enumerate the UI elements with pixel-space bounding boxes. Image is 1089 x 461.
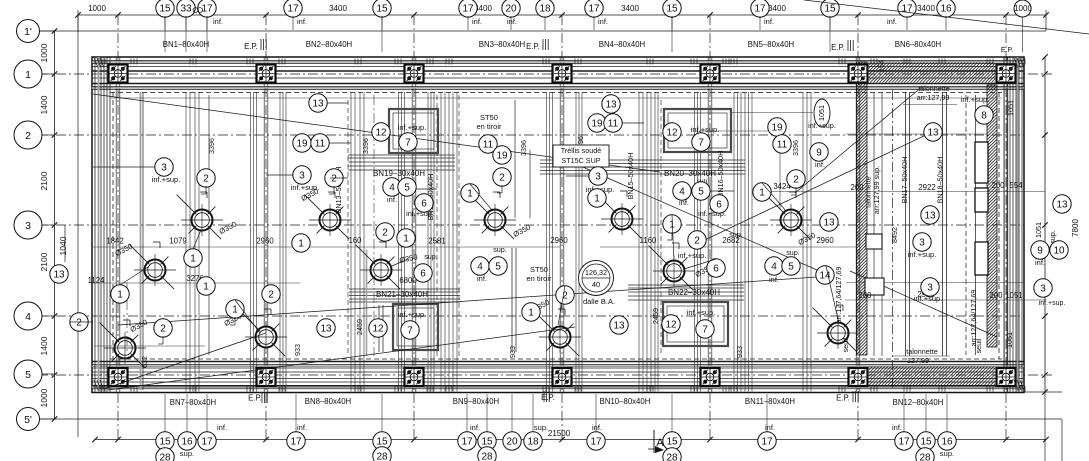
bar mark circle 17 top [459,0,477,17]
top dimension line [78,14,1046,16]
row centerline 2 [38,134,1024,136]
svg-text:2: 2 [793,175,799,186]
svg-text:1051: 1051 [817,105,826,121]
pile P11 diam 350 [781,210,802,231]
left wall dashed inner [112,92,114,359]
bottom right ext lines [1044,392,1046,461]
column block top C4 [553,65,572,83]
bar mark circle 15 top [373,0,391,17]
column block top C2 [257,65,276,83]
callout circle 19 at 777,127 [768,118,786,136]
svg-text:inf.: inf. [507,17,517,26]
bar mark circle 15 top [821,0,839,17]
svg-text:9: 9 [1037,246,1043,257]
svg-text:talonnette: talonnette [918,84,950,93]
callout circle 2 at 697,240 [688,231,706,249]
callout circle 1 at 470,193 [461,184,479,202]
callout leader line [416,188,437,190]
left wall lines [94,57,96,392]
svg-text:20: 20 [506,437,518,448]
callout circle 2 at 796,179 [787,170,805,188]
E.P. tick marks [852,391,854,402]
row centerline 1 [38,73,1052,75]
bar mark circle 16 top [937,0,955,17]
svg-text:154: 154 [877,60,886,72]
trellis soude label box [553,145,609,167]
hatched wall strip right of bay6 [987,85,997,347]
bar mark circle right [1014,0,1031,17]
right wall dashed inner [998,92,1000,359]
svg-text:3: 3 [25,220,31,232]
svg-text:1: 1 [759,188,765,199]
svg-text:18: 18 [539,4,551,15]
svg-text:3: 3 [1040,284,1046,295]
bay6 dim line y300 [845,299,1045,301]
svg-text:BN18–50x40H: BN18–50x40H [936,157,945,204]
callout circle 6 at 424,203 [415,194,433,212]
callout circle 1 at 193,258 [184,249,202,267]
callout circle 13 at 930,215 [921,206,939,224]
svg-text:E.P.: E.P. [244,42,258,51]
long diagonal D2 to circle 14 [560,157,817,270]
svg-text:ST50: ST50 [480,113,498,122]
svg-text:17: 17 [462,4,474,15]
window rect on hatched strip 2 [975,188,988,212]
dash-dot vline bay2 x374 [373,95,375,356]
svg-text:arr:127,99: arr:127,99 [917,93,950,102]
callout circle 13 at 318,103 [309,94,327,112]
callout circle 4 at 774,266 [765,257,783,275]
double vline bay3 x513 [511,248,513,352]
band tick marks [98,59,100,65]
callout circle 3 at 1043,288 [1034,279,1052,297]
beam BN18-50x40H vertical strip [942,92,944,356]
svg-text:4: 4 [477,262,483,273]
svg-text:15: 15 [159,4,171,15]
svg-text:7: 7 [407,326,413,337]
svg-text:1051: 1051 [1005,291,1022,300]
pile P7 diam 350 [485,210,506,231]
callout circle 2 at 271,294 [262,285,280,303]
svg-text:17: 17 [201,4,213,15]
pile P2 diam 350 [145,260,166,281]
bar mark circle 17 bottom [758,432,776,450]
load circle 126,32 / 40 [579,261,614,296]
callout circle 19 at 597,123 [588,114,606,132]
bar mark circle 20 bottom [503,432,521,450]
bay6 dim line y282 [846,282,1024,284]
svg-text:2960: 2960 [256,237,274,246]
top band beam lines thick [92,70,1024,72]
svg-text:5: 5 [788,262,794,273]
svg-text:15: 15 [920,437,932,448]
callout circle 4 at 392,187 [383,178,401,196]
bar mark circle 28 bottom [156,448,174,461]
svg-text:11: 11 [608,119,619,130]
bay6 leader y134 [846,133,987,135]
svg-text:17: 17 [201,437,213,448]
svg-text:4: 4 [389,183,395,194]
callout circle 12 at 378,328 [369,319,387,337]
svg-text:inf.+sup.: inf.+sup. [291,183,320,192]
dash-dot centerline bay6 x892 [892,90,894,390]
grid bubble 2 [14,121,42,149]
svg-text:13: 13 [823,218,835,229]
svg-text:2: 2 [331,174,337,185]
callout circle 3 at 922,242 [913,233,931,251]
bar mark circle 16 bottom [938,432,956,450]
svg-text:19: 19 [771,123,783,134]
svg-text:200: 200 [991,181,1005,190]
svg-text:en tiroir: en tiroir [476,122,502,131]
svg-text:E.P.: E.P. [541,393,555,402]
svg-text:13: 13 [613,321,625,332]
callout circle 11 at 782,144 [773,135,791,153]
svg-text:inf.+sup.: inf.+sup. [398,310,427,319]
svg-text:3396: 3396 [361,138,370,154]
svg-text:2: 2 [382,228,388,239]
callout circle 12 at 672,132 [663,123,681,141]
svg-text:ST50: ST50 [530,265,548,274]
grid bubble 3 [14,211,42,239]
steep diagonal bay1 bottom [104,333,266,389]
left extension vline [77,15,79,437]
grid bubble 5 [14,360,42,388]
svg-text:1051: 1051 [1034,222,1043,238]
left dim line [54,31,56,419]
callout leader [558,286,565,325]
svg-text:15: 15 [376,437,388,448]
svg-text:28: 28 [376,452,388,461]
E.P. tick marks [543,391,545,402]
svg-text:BN3–80x40H: BN3–80x40H [479,40,525,49]
svg-text:inf.: inf. [592,423,602,432]
top band dashed slab edge [110,92,1002,94]
grey vertical pair bay1 [140,92,142,390]
bar mark circle 28 bottom [373,447,391,461]
svg-text:19: 19 [591,119,603,130]
column double lines 4 [559,57,561,392]
bar mark circle 17 top [284,0,302,17]
hatched band segment top bay6 [869,63,995,83]
svg-text:21500: 21500 [548,429,571,438]
svg-text:13: 13 [927,128,939,139]
svg-text:BN6–80x40H: BN6–80x40H [895,40,941,49]
svg-text:13: 13 [1056,200,1068,211]
dashed vline bay2 right x437 [436,95,438,356]
svg-text:28: 28 [159,453,171,461]
svg-text:sup.: sup. [534,423,548,432]
svg-text:15: 15 [824,4,836,15]
svg-text:BN1–80x40H: BN1–80x40H [163,40,209,49]
column block bottom C5 [701,368,720,386]
svg-text:3: 3 [299,171,305,182]
svg-text:sup.: sup. [493,245,507,254]
bar mark circle 17 bottom [587,432,605,450]
column centerline 4 [561,15,563,439]
dim tick bottom [263,437,268,442]
svg-text:4: 4 [679,187,685,198]
svg-text:10: 10 [1053,246,1065,257]
callout circle 10 at 1059,250 [1050,241,1068,259]
grey line right of BN13 [366,250,368,356]
svg-text:13: 13 [312,99,324,110]
svg-text:1: 1 [203,282,209,293]
talonnette bottom underline [893,355,950,357]
column block top C7 [997,65,1016,83]
svg-text:28: 28 [666,453,678,461]
svg-text:2459: 2459 [651,308,660,324]
column 4 flank strips [546,92,548,392]
wall strip bay1 x193 [185,92,187,392]
beam BN19-30x40H horizontal [348,154,455,156]
left wall grey line [98,57,100,392]
pile P5 diam 350 [320,210,341,231]
svg-text:inf.: inf. [470,423,480,432]
svg-text:E.P.: E.P. [526,42,540,51]
callout leader line [329,142,351,144]
bar mark circle 15 bottom [917,432,935,450]
callout leader [193,230,201,249]
beam BN22-30x40H horizontal [628,284,744,286]
dim line y247 right [600,246,858,248]
svg-text:BN5–80x40H: BN5–80x40H [748,40,794,49]
svg-text:2: 2 [160,324,166,335]
callout circle 5 at 407,187 [398,178,416,196]
svg-text:1000: 1000 [1014,4,1032,13]
svg-text:talonnette: talonnette [906,347,938,356]
callout circle 7 at 705,329 [696,320,714,338]
callout circle 13 at 933,132 [924,123,942,141]
svg-text:inf.+sup.: inf.+sup. [398,123,427,132]
svg-text:inf.: inf. [297,423,307,432]
dim tick [115,12,120,17]
left hatch window rect 2 [865,278,884,295]
thin vline bay1 x209 [208,95,210,355]
svg-text:12: 12 [372,324,384,335]
leader y112 bay5 [731,112,813,114]
dim line y283 [93,282,300,284]
callout circle 7 at 701,142 [692,133,710,151]
svg-text:1: 1 [117,290,123,301]
top right diagonal D5 [804,0,1089,34]
svg-text:sup.: sup. [786,248,800,257]
dim tick bottom [1043,437,1048,442]
bar mark circle 16 bottom [178,432,196,450]
svg-text:1: 1 [594,194,600,205]
svg-text:6: 6 [421,199,427,210]
callout leader line [622,122,644,124]
column block top C3 [405,65,424,83]
svg-text:2100: 2100 [39,171,49,190]
svg-text:BN11–80x40H: BN11–80x40H [745,397,795,406]
svg-text:12: 12 [666,128,678,139]
line bay6 x975 [975,95,977,355]
bar mark circle 15 bottom [663,432,681,450]
callout circle 11 at 320,143 [311,134,329,152]
pile P6 diam 350 [371,260,392,281]
svg-text:BN17–50x40H: BN17–50x40H [900,157,909,204]
column centerline 3 [413,15,415,439]
dim line y247 left [93,246,560,248]
steep diagonal bay6 [795,86,923,193]
callout circle 5 at 791,266 [782,257,800,275]
svg-text:inf.: inf. [213,17,223,26]
E.P. tick marks [542,39,544,50]
callout leader [235,300,260,333]
column block bottom C4 [553,368,572,386]
callout circle 13 at 829,222 [820,213,838,231]
callout circle 2 at 502,177 [493,168,511,186]
callout circle 3 at 164,167 [155,158,173,176]
callout circle 7 at 408,142 [399,133,417,151]
svg-text:933: 933 [508,346,517,358]
callout leader [392,259,408,266]
bar mark circle 33 top [177,0,195,17]
pile P8 diam 350 [550,327,571,348]
dim tick [559,12,564,17]
beam BN15-50x40H vertical strip [638,92,640,392]
svg-text:5': 5' [24,414,32,426]
svg-text:15: 15 [376,4,388,15]
callout circle 1 at 206,286 [197,277,215,295]
callout circle 2 at 206,178 [197,169,215,187]
callout leader [470,184,492,210]
svg-text:seuil: seuil [841,337,850,352]
pit box bay2 bottom [393,304,438,350]
callout leader line [330,177,348,179]
thin vline bay3 x515 [514,100,516,218]
dim tick bottom [115,437,120,442]
grid bubble 5' [17,408,40,431]
pile P3 centerline [126,282,128,351]
svg-text:12: 12 [375,128,387,139]
beam BN13-50x40H vertical strip [350,92,352,392]
window rect on hatched strip 1 [975,142,988,183]
dashed vline bay2 x348 [347,100,349,356]
svg-text:13: 13 [320,324,332,335]
column double lines 3 [411,57,413,392]
bar mark circle 18 bottom [524,432,542,450]
svg-text:sup.: sup. [940,449,954,458]
svg-text:6: 6 [420,269,426,280]
dim tick [411,12,416,17]
bar mark circle 15 bottom [156,432,174,450]
svg-text:9: 9 [816,148,822,159]
svg-text:5: 5 [25,369,31,381]
bottom band grey lines [92,365,1024,367]
svg-text:200: 200 [989,291,1003,300]
svg-text:1124: 1124 [88,276,105,285]
svg-text:19: 19 [296,139,308,150]
svg-text:2960: 2960 [550,236,568,245]
callout circle 4 at 682,191 [673,182,691,200]
callout leader line [70,321,93,323]
column block bottom C1 [109,368,128,386]
interior line y98 [110,97,1002,99]
svg-text:3396: 3396 [519,140,528,156]
svg-text:18: 18 [527,437,539,448]
svg-text:inf.+sup.: inf.+sup. [678,251,707,260]
pile P4 diam 350 [256,327,277,348]
callout circle 1 at 301,243 [292,234,310,252]
svg-text:inf.: inf. [598,17,608,26]
svg-text:2: 2 [694,236,700,247]
svg-text:3396: 3396 [207,138,216,154]
long diagonal D1 [93,94,660,172]
bottom band beam lines thick [92,361,1024,363]
callout circle 19 at 302,143 [293,134,311,152]
bar mark circle 17 bottom [458,432,476,450]
svg-text:BN10–80x40H: BN10–80x40H [600,397,651,406]
right wall lines [1003,57,1005,392]
svg-text:3: 3 [595,172,601,183]
leader bracket [234,317,236,325]
leader line [381,16,383,52]
dim tick bottom [411,437,416,442]
leader bracket [671,232,673,240]
bar mark circle 28 bottom [478,447,496,461]
dim tick bottom [1003,437,1008,442]
column double lines 7 [1003,57,1005,392]
svg-text:inf.+sup.: inf.+sup. [808,121,836,130]
svg-text:127,99: 127,99 [907,356,929,365]
callout circle 7 at 410,330 [401,321,419,339]
dim tick [707,12,712,17]
svg-text:2922: 2922 [918,183,935,192]
hatched wall strip left of bay6 [857,62,868,355]
pile P9 diam 350 [612,209,633,230]
svg-text:17: 17 [754,4,766,15]
dim tick [855,12,860,17]
callout circle 1 at 406,238 [397,229,415,247]
svg-text:17: 17 [290,437,302,448]
svg-text:1400: 1400 [39,336,49,355]
callout leader line [710,190,734,192]
leader vline bay5 x780 [779,137,781,210]
svg-text:1: 1 [232,305,238,316]
top extension line right [1045,10,1047,31]
column centerline 2 [265,15,267,439]
row centerline 5 [38,374,1052,376]
svg-text:13: 13 [924,211,936,222]
svg-text:1: 1 [528,308,534,319]
right section diagonal D7 [850,271,997,337]
callout circle 12 at 671,324 [662,315,680,333]
callout leader [672,215,674,261]
svg-text:5: 5 [404,183,410,194]
bar mark circle 18 top [536,0,554,17]
dashed vline bay3 left [458,95,460,356]
bottom band beam lines thin [92,364,1024,366]
long diagonal bay5 [690,134,928,247]
callout circle 13 at 611,104 [602,95,620,113]
leader bracket [333,186,335,194]
band tick marks at strips [189,59,191,65]
hatched band segment bottom bay6 [869,367,995,387]
callout circle 2 at 163,328 [154,319,172,337]
svg-text:11: 11 [315,139,326,150]
pile P3 hline ext [94,345,205,347]
top extension line left [77,10,79,32]
callout circle 6 at 719,204 [710,195,728,213]
bar mark circle 17 bottom [287,432,305,450]
svg-text:632: 632 [140,356,149,368]
svg-text:1160: 1160 [640,236,657,245]
callout circle 14 at 825,275 [816,266,834,284]
callout circle 19 at 502,155 [493,146,511,164]
svg-text:sup.: sup. [424,252,438,261]
